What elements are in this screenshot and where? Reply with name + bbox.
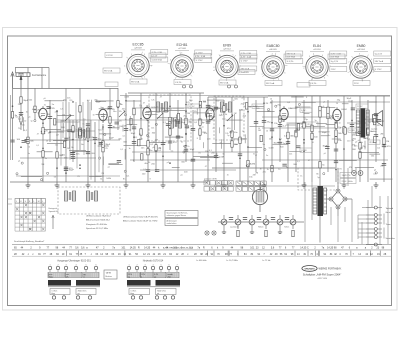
resistor R7 bbox=[42, 128, 44, 134]
node bbox=[49, 131, 51, 133]
svg-text:12k: 12k bbox=[55, 144, 58, 146]
wire bbox=[332, 138, 341, 140]
push-button header row bbox=[15, 199, 45, 204]
node bbox=[279, 139, 281, 141]
node bbox=[279, 110, 281, 112]
resistor R47 bbox=[327, 107, 329, 113]
resistor R43 bbox=[319, 106, 321, 112]
node bbox=[155, 150, 157, 152]
wire bbox=[10, 181, 208, 183]
wire bbox=[255, 100, 257, 172]
resistor R24 bbox=[177, 115, 179, 121]
node bbox=[263, 102, 265, 104]
svg-text:ge: ge bbox=[154, 276, 156, 278]
terminal bbox=[146, 134, 148, 136]
wire bbox=[330, 207, 332, 225]
capacitor C5 bbox=[64, 166, 68, 168]
wire bbox=[132, 151, 258, 153]
tube socket V1 ECC85 (bottom view) bbox=[124, 43, 152, 80]
wire bbox=[65, 88, 67, 182]
voltage label box bbox=[300, 108, 312, 112]
output transformer Tr1 core bbox=[361, 108, 366, 138]
svg-text:8: 8 bbox=[306, 97, 307, 99]
resistor R68 bbox=[374, 136, 376, 142]
wire bbox=[342, 103, 349, 105]
svg-text:U 98V: U 98V bbox=[301, 150, 307, 152]
resistor R59 bbox=[54, 119, 56, 125]
svg-text:12k: 12k bbox=[151, 128, 154, 130]
svg-text:98V 2mA: 98V 2mA bbox=[241, 68, 250, 71]
svg-text:µ5: µ5 bbox=[167, 162, 169, 164]
svg-text:1k: 1k bbox=[187, 146, 189, 148]
terminal bbox=[246, 165, 248, 167]
wire bbox=[27, 68, 29, 73]
node bbox=[169, 162, 171, 164]
node bbox=[56, 167, 58, 169]
wire bbox=[172, 107, 184, 109]
svg-text:a32 604: a32 604 bbox=[357, 49, 365, 51]
wire bbox=[250, 126, 264, 128]
wire bbox=[133, 100, 135, 162]
svg-text:3n: 3n bbox=[227, 175, 229, 177]
wire bbox=[295, 106, 311, 108]
capacitor C34 bbox=[286, 141, 290, 143]
resistor R71 bbox=[265, 230, 267, 236]
capacitor C24 bbox=[206, 104, 210, 106]
wire bbox=[327, 198, 331, 200]
mains transformer winding bbox=[313, 188, 317, 214]
resistor R45 bbox=[319, 162, 321, 168]
output filter box (dashed) bbox=[298, 168, 338, 190]
svg-text:Buchse: Buchse bbox=[106, 276, 112, 278]
wire bbox=[364, 118, 377, 120]
svg-text:µ5: µ5 bbox=[40, 116, 42, 118]
svg-text:few: few bbox=[98, 129, 102, 131]
svg-text:3n: 3n bbox=[100, 107, 102, 109]
terminal bbox=[124, 170, 126, 172]
wire bbox=[60, 120, 62, 166]
wire bbox=[339, 159, 357, 161]
resistor R48 bbox=[335, 137, 337, 143]
node bbox=[303, 151, 305, 153]
wire bbox=[124, 144, 147, 146]
resistor R52 bbox=[359, 152, 361, 158]
node bbox=[20, 146, 22, 148]
terminal bbox=[214, 109, 216, 111]
wire bbox=[83, 120, 85, 155]
wire bbox=[69, 137, 71, 149]
svg-text:a27 608: a27 608 bbox=[178, 48, 186, 50]
wire bbox=[263, 97, 265, 182]
wire bbox=[20, 157, 96, 159]
svg-text:0,1: 0,1 bbox=[337, 118, 340, 120]
svg-text:5: 5 bbox=[283, 59, 284, 61]
resistor R49 bbox=[335, 130, 337, 136]
svg-text:f = 10,7 MHz: f = 10,7 MHz bbox=[226, 260, 238, 262]
resistor R8 bbox=[56, 152, 58, 158]
resistor R12 bbox=[102, 145, 104, 151]
wire bbox=[289, 150, 302, 152]
svg-text:5p: 5p bbox=[31, 120, 33, 122]
capacitor C21 bbox=[184, 148, 188, 150]
svg-text:6: 6 bbox=[168, 264, 169, 266]
wire bbox=[16, 175, 120, 177]
margin mark bbox=[8, 198, 12, 200]
terminal bbox=[323, 173, 325, 175]
wire bbox=[369, 101, 377, 103]
voltage label box bbox=[368, 140, 380, 144]
wire bbox=[359, 96, 361, 182]
wire bbox=[319, 131, 330, 133]
wire bbox=[357, 215, 359, 239]
svg-text:10: 10 bbox=[28, 147, 30, 149]
node bbox=[87, 140, 89, 142]
svg-text:a29 612: a29 612 bbox=[223, 49, 231, 51]
wire bbox=[89, 102, 91, 138]
wire bbox=[202, 142, 204, 148]
pin voltage label box bbox=[265, 81, 282, 86]
wire bbox=[108, 127, 120, 129]
svg-text:0,1: 0,1 bbox=[373, 173, 376, 175]
svg-text:5: 5 bbox=[85, 264, 86, 266]
wire bbox=[245, 105, 264, 107]
pin voltage label box bbox=[149, 53, 166, 58]
svg-text:98V 2mA: 98V 2mA bbox=[266, 82, 275, 85]
svg-text:30pF: 30pF bbox=[209, 110, 214, 112]
resistor R28 bbox=[199, 129, 201, 135]
svg-text:0,1: 0,1 bbox=[87, 100, 90, 102]
tube U5 EABC80 bbox=[280, 106, 298, 122]
resistor R69 bbox=[245, 103, 247, 109]
trimmer capacitor bbox=[235, 85, 238, 88]
capacitor C16 bbox=[146, 169, 150, 171]
svg-text:f = 460 kHz: f = 460 kHz bbox=[196, 260, 207, 262]
wire bbox=[360, 151, 379, 153]
band switch contact block bbox=[204, 177, 233, 191]
node bbox=[311, 138, 313, 140]
svg-text:2M: 2M bbox=[107, 108, 110, 110]
wire bbox=[147, 114, 157, 116]
node bbox=[42, 122, 44, 124]
output transformer winding bbox=[356, 110, 359, 136]
wire bbox=[223, 100, 225, 182]
terminal bbox=[84, 138, 86, 140]
svg-text:1k: 1k bbox=[300, 176, 302, 178]
wire bbox=[82, 102, 84, 138]
table rule bbox=[12, 244, 391, 246]
wire bbox=[304, 182, 306, 242]
svg-text:Tiefen: Tiefen bbox=[284, 227, 289, 229]
capacitor C52 bbox=[67, 129, 71, 131]
svg-text:101: 101 bbox=[121, 247, 126, 250]
svg-text:3n: 3n bbox=[44, 105, 46, 107]
svg-text:220: 220 bbox=[69, 100, 72, 102]
wire bbox=[102, 113, 104, 122]
node bbox=[185, 111, 187, 113]
svg-text:3: 3 bbox=[170, 73, 171, 75]
capacitor C18 bbox=[168, 140, 172, 142]
svg-text:U 170V: U 170V bbox=[375, 69, 382, 71]
wire bbox=[165, 136, 183, 138]
resistor R63 bbox=[130, 118, 132, 124]
svg-text:14,35: 14,35 bbox=[300, 247, 307, 250]
svg-text:6,3V~: 6,3V~ bbox=[301, 110, 307, 112]
component list row 1 bbox=[14, 247, 385, 250]
resistor R18 bbox=[140, 129, 142, 135]
svg-text:2M: 2M bbox=[255, 172, 258, 174]
svg-text:4: 4 bbox=[219, 55, 220, 57]
capacitor C57 bbox=[166, 123, 170, 125]
terminal group bracket bbox=[383, 214, 385, 225]
pin voltage label box bbox=[240, 54, 257, 59]
svg-text:4: 4 bbox=[371, 59, 372, 61]
node bbox=[133, 136, 135, 138]
wire bbox=[218, 127, 220, 133]
svg-text:3n: 3n bbox=[153, 142, 155, 144]
capacitor C46 bbox=[46, 106, 50, 108]
wire bbox=[270, 101, 390, 103]
node bbox=[287, 141, 289, 143]
node bbox=[335, 169, 337, 171]
wire bbox=[367, 100, 369, 182]
wire bbox=[129, 116, 131, 131]
wire bbox=[53, 140, 67, 142]
selenium rectifier Gr1 bbox=[329, 189, 347, 209]
wire bbox=[56, 110, 58, 182]
wire bbox=[268, 95, 390, 97]
wire bbox=[321, 107, 336, 109]
terminal bbox=[183, 151, 185, 153]
svg-text:UKW-Drucktaste 94-62 mA Z: UKW-Drucktaste 94-62 mA ZF 460 kHz bbox=[123, 216, 158, 219]
wire bbox=[42, 122, 44, 182]
svg-text:6,3V~ 0,3A: 6,3V~ 0,3A bbox=[195, 55, 206, 58]
node bbox=[343, 148, 345, 150]
wire bbox=[358, 228, 366, 230]
svg-text:EM80: EM80 bbox=[357, 44, 366, 48]
wire bbox=[199, 93, 201, 140]
wire bbox=[15, 68, 17, 74]
node bbox=[140, 118, 142, 120]
pin voltage label box bbox=[286, 51, 303, 56]
capacitor C2 bbox=[19, 112, 23, 114]
variable capacitor arrow bbox=[227, 115, 233, 121]
svg-text:1M: 1M bbox=[258, 130, 261, 132]
mains transformer Tr2 diagram bbox=[127, 264, 180, 299]
wire bbox=[286, 124, 297, 126]
svg-text:10: 10 bbox=[312, 142, 314, 144]
wire bbox=[57, 115, 74, 117]
wire bbox=[57, 119, 215, 121]
wire bbox=[379, 196, 381, 244]
resistor R40 bbox=[303, 122, 305, 128]
wire bbox=[291, 96, 304, 98]
svg-text:10: 10 bbox=[139, 134, 141, 136]
wire bbox=[358, 232, 366, 234]
svg-text:C: C bbox=[307, 247, 309, 250]
wire bbox=[247, 146, 262, 148]
svg-text:30pF: 30pF bbox=[322, 132, 327, 134]
svg-text:4n: 4n bbox=[32, 109, 34, 111]
svg-text:5p: 5p bbox=[300, 124, 302, 126]
terminal bbox=[375, 172, 377, 174]
mains transformer winding 2 bbox=[324, 188, 327, 214]
wire bbox=[351, 199, 353, 210]
wire bbox=[62, 102, 64, 138]
wire bbox=[120, 95, 390, 97]
svg-text:µ5: µ5 bbox=[191, 103, 193, 105]
dial lamp La2 bbox=[212, 231, 216, 235]
svg-text:4n: 4n bbox=[369, 122, 371, 124]
tube U3 ECH81 bbox=[143, 105, 160, 121]
wire bbox=[214, 185, 335, 187]
svg-text:Ferritantenne: Ferritantenne bbox=[32, 74, 47, 77]
svg-text:220: 220 bbox=[216, 100, 219, 102]
wire bbox=[262, 127, 336, 129]
variable capacitor arrow bbox=[157, 113, 163, 119]
svg-text:6: 6 bbox=[193, 59, 194, 61]
resistor R5 bbox=[34, 106, 36, 112]
table rule bbox=[12, 255, 391, 257]
svg-text:1k: 1k bbox=[26, 112, 28, 114]
node bbox=[125, 100, 127, 102]
terminal bbox=[298, 103, 300, 105]
arrow bbox=[52, 216, 54, 229]
svg-text:2M: 2M bbox=[380, 166, 383, 168]
svg-text:3n: 3n bbox=[374, 115, 376, 117]
svg-text:14,35: 14,35 bbox=[130, 247, 137, 250]
resistor R33 bbox=[231, 141, 233, 147]
resistor R19 bbox=[147, 149, 149, 155]
svg-text:7: 7 bbox=[176, 264, 177, 266]
svg-text:0,1: 0,1 bbox=[120, 149, 123, 151]
wire bbox=[79, 88, 81, 150]
svg-text:12k: 12k bbox=[377, 125, 380, 127]
tube U1 ECC85 bbox=[39, 106, 56, 122]
resistor R22 bbox=[169, 129, 171, 135]
svg-text:8: 8 bbox=[197, 138, 198, 140]
svg-text:0,1: 0,1 bbox=[176, 125, 179, 127]
svg-text:5: 5 bbox=[181, 53, 182, 55]
svg-text:12,5V: 12,5V bbox=[189, 106, 195, 108]
wire bbox=[303, 100, 305, 182]
capacitor C6 bbox=[64, 168, 68, 170]
oscillator coil L5 bbox=[64, 191, 75, 201]
svg-text:GRUNDIG: GRUNDIG bbox=[304, 268, 315, 270]
svg-text:R: R bbox=[138, 247, 140, 250]
wire bbox=[319, 216, 321, 243]
svg-text:1: 1 bbox=[350, 75, 351, 77]
svg-text:ECC85: ECC85 bbox=[133, 43, 144, 47]
svg-text:0,5M: 0,5M bbox=[124, 97, 129, 99]
capacitor C41 bbox=[382, 162, 386, 164]
capacitor C61 bbox=[229, 217, 233, 219]
resistor R36 bbox=[271, 165, 273, 171]
wire bbox=[337, 168, 339, 191]
coil L3 bbox=[78, 128, 89, 138]
svg-text:µ5: µ5 bbox=[162, 144, 164, 146]
capacitor C22 bbox=[191, 127, 195, 129]
wire bbox=[262, 159, 388, 161]
svg-text:Netztrafo 9170-014: Netztrafo 9170-014 bbox=[143, 260, 164, 263]
svg-text:12k: 12k bbox=[119, 111, 122, 113]
pin voltage label box bbox=[240, 66, 257, 71]
svg-text:12,5V: 12,5V bbox=[357, 106, 363, 108]
svg-text:µ5: µ5 bbox=[324, 153, 326, 155]
svg-text:2: 2 bbox=[144, 77, 145, 79]
wire bbox=[247, 97, 249, 182]
capacitor C27 bbox=[214, 106, 218, 108]
svg-text:220: 220 bbox=[347, 141, 350, 143]
svg-text:Ug 1,5V: Ug 1,5V bbox=[331, 61, 339, 63]
resistor R23 bbox=[169, 117, 171, 123]
svg-text:2M: 2M bbox=[266, 103, 269, 105]
svg-text:98V 2mA: 98V 2mA bbox=[104, 70, 113, 73]
node bbox=[72, 139, 74, 141]
pin voltage label box bbox=[374, 59, 391, 64]
ground bbox=[223, 229, 225, 232]
svg-text:30pF: 30pF bbox=[274, 143, 279, 145]
svg-text:30pF: 30pF bbox=[105, 144, 111, 146]
svg-text:47: 47 bbox=[308, 160, 310, 162]
svg-text:U 6,3V~: U 6,3V~ bbox=[310, 83, 318, 85]
svg-text:30pF: 30pF bbox=[96, 102, 101, 104]
wire bbox=[140, 169, 236, 171]
wire bbox=[287, 122, 303, 124]
mains voltage label box bbox=[340, 179, 356, 184]
wire bbox=[99, 133, 111, 135]
svg-text:215V: 215V bbox=[331, 69, 336, 71]
resistor R10 bbox=[79, 129, 81, 135]
svg-text:3n: 3n bbox=[183, 146, 185, 148]
wire bbox=[192, 110, 194, 182]
svg-text:+0257 5050: +0257 5050 bbox=[317, 278, 327, 280]
wire bbox=[164, 110, 187, 112]
wire bbox=[12, 88, 14, 160]
svg-text:6,3V~ 0,3A: 6,3V~ 0,3A bbox=[241, 56, 252, 59]
wire bbox=[47, 143, 64, 145]
capacitor C3 bbox=[41, 130, 45, 132]
svg-text:6: 6 bbox=[144, 54, 145, 56]
svg-text:1: 1 bbox=[128, 264, 129, 266]
terminal bbox=[275, 105, 277, 107]
potentiometer P6 bbox=[290, 219, 296, 225]
wire bbox=[127, 123, 138, 125]
wire bbox=[146, 111, 169, 113]
potentiometer P1 bbox=[221, 219, 227, 225]
wire bbox=[27, 76, 29, 182]
wire bbox=[273, 143, 289, 145]
node bbox=[185, 134, 187, 136]
wire bbox=[169, 93, 171, 150]
svg-text:Druckknopf-Stellung „Bandlauf: Druckknopf-Stellung „Bandlauf“ bbox=[14, 240, 45, 243]
wire bbox=[364, 141, 366, 150]
ground bbox=[303, 182, 305, 185]
wire bbox=[45, 100, 65, 102]
svg-text:Ug 1,5V: Ug 1,5V bbox=[375, 54, 383, 56]
resistor R54 bbox=[383, 138, 385, 144]
resistor R65 bbox=[141, 154, 143, 160]
svg-text:2M: 2M bbox=[101, 173, 104, 175]
wire bbox=[295, 96, 297, 172]
pin voltage label box bbox=[240, 51, 257, 56]
ground bbox=[56, 182, 58, 185]
svg-text:blau: blau bbox=[52, 293, 56, 295]
resistor R64 bbox=[169, 122, 171, 128]
svg-text:U 6,3V~: U 6,3V~ bbox=[175, 82, 183, 84]
svg-text:3n: 3n bbox=[45, 158, 47, 160]
svg-text:220: 220 bbox=[55, 112, 58, 114]
svg-text:2M: 2M bbox=[380, 134, 383, 136]
